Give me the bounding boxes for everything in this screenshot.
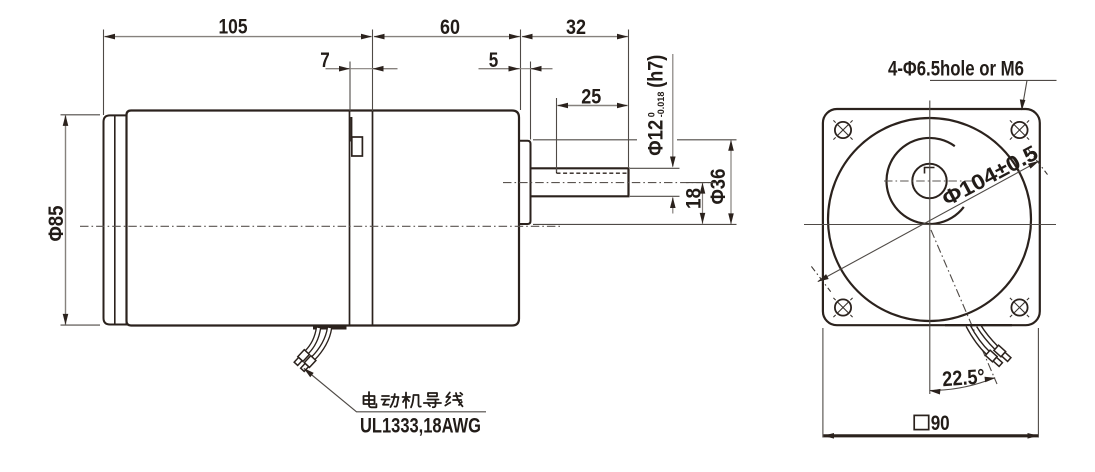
phi36 arc <box>886 138 963 224</box>
svg-text:UL1333,18AWG: UL1333,18AWG <box>360 415 481 438</box>
svg-text:105: 105 <box>219 15 248 39</box>
dim phi85 <box>61 114 101 116</box>
svg-text:7: 7 <box>320 48 330 72</box>
keyway mark <box>925 168 935 174</box>
svg-text:(h7): (h7) <box>645 55 668 88</box>
bottom dim <box>822 328 824 438</box>
right wires <box>968 326 989 354</box>
dim 5 <box>479 68 520 70</box>
svg-text:90: 90 <box>931 411 950 435</box>
svg-text:Φ36: Φ36 <box>706 168 730 204</box>
boss top ext <box>533 139 637 141</box>
phi104 dim line <box>818 161 1039 281</box>
dim 25 <box>558 105 628 107</box>
svg-text:0: 0 <box>647 112 657 117</box>
dim phi36 <box>730 140 732 224</box>
svg-text:-0.018: -0.018 <box>656 92 666 118</box>
junction line 1 <box>349 112 351 325</box>
terminal 2 <box>300 356 316 372</box>
svg-text:25: 25 <box>581 84 601 108</box>
shaft centerline <box>503 182 721 184</box>
square90 label <box>914 415 929 429</box>
dim phi12 <box>672 54 674 167</box>
svg-text:32: 32 <box>566 15 586 39</box>
svg-text:Φ85: Φ85 <box>44 205 68 241</box>
chinese label 电动机导线 <box>364 392 463 408</box>
dim 18 <box>686 182 716 184</box>
wire 2 <box>313 328 330 359</box>
ext line 105 left <box>103 30 105 116</box>
dim line 32 <box>522 36 628 38</box>
shaft circle <box>912 164 946 198</box>
corner holes <box>835 122 1028 316</box>
svg-text:60: 60 <box>440 15 460 39</box>
junction thick segment <box>350 117 352 142</box>
shaft <box>531 168 629 196</box>
ext line x628.5 <box>628 30 630 168</box>
ext line x350 <box>349 62 351 112</box>
junction line 2 <box>372 112 374 325</box>
wire grommet <box>313 326 347 330</box>
dim line 105 <box>105 36 372 38</box>
dim line 60 <box>374 36 520 38</box>
svg-text:Φ12: Φ12 <box>645 120 668 156</box>
terminal 1 <box>293 350 309 366</box>
shaft flat dashed <box>557 172 628 174</box>
dim 7 <box>326 68 351 70</box>
ext line x372.5 <box>372 30 374 112</box>
ext line x520.5 <box>520 30 522 111</box>
flange <box>823 109 1040 325</box>
shaft h centerline <box>884 180 973 182</box>
svg-text:18: 18 <box>683 188 706 209</box>
hole cross diagonals <box>833 120 1029 317</box>
body centerline <box>80 225 560 227</box>
phi12 text <box>645 55 668 156</box>
svg-text:4-Φ6.5hole or M6: 4-Φ6.5hole or M6 <box>888 58 1024 81</box>
boss bottom ext <box>533 223 737 225</box>
svg-text:22.5°: 22.5° <box>942 365 986 391</box>
bolt circle dash arcs <box>811 149 1047 291</box>
ext line x556.5 <box>556 98 558 172</box>
flat start tick <box>556 168 558 173</box>
motor rear cap <box>104 115 127 324</box>
leader wires <box>304 369 486 412</box>
ext lines shaft right <box>630 167 680 169</box>
v centerline <box>929 101 931 395</box>
big circle <box>828 118 1031 321</box>
svg-text:5: 5 <box>489 48 499 72</box>
ext line x530.5 <box>530 62 532 140</box>
wire 1 <box>307 328 319 353</box>
output boss <box>520 141 531 224</box>
cap seam <box>114 116 116 324</box>
22.5 dashdot line <box>931 230 997 384</box>
terminal tab <box>352 137 363 156</box>
motor body <box>127 111 520 326</box>
h centerline <box>804 224 1056 226</box>
angle arc <box>930 378 995 391</box>
arrows top dims <box>104 34 115 40</box>
